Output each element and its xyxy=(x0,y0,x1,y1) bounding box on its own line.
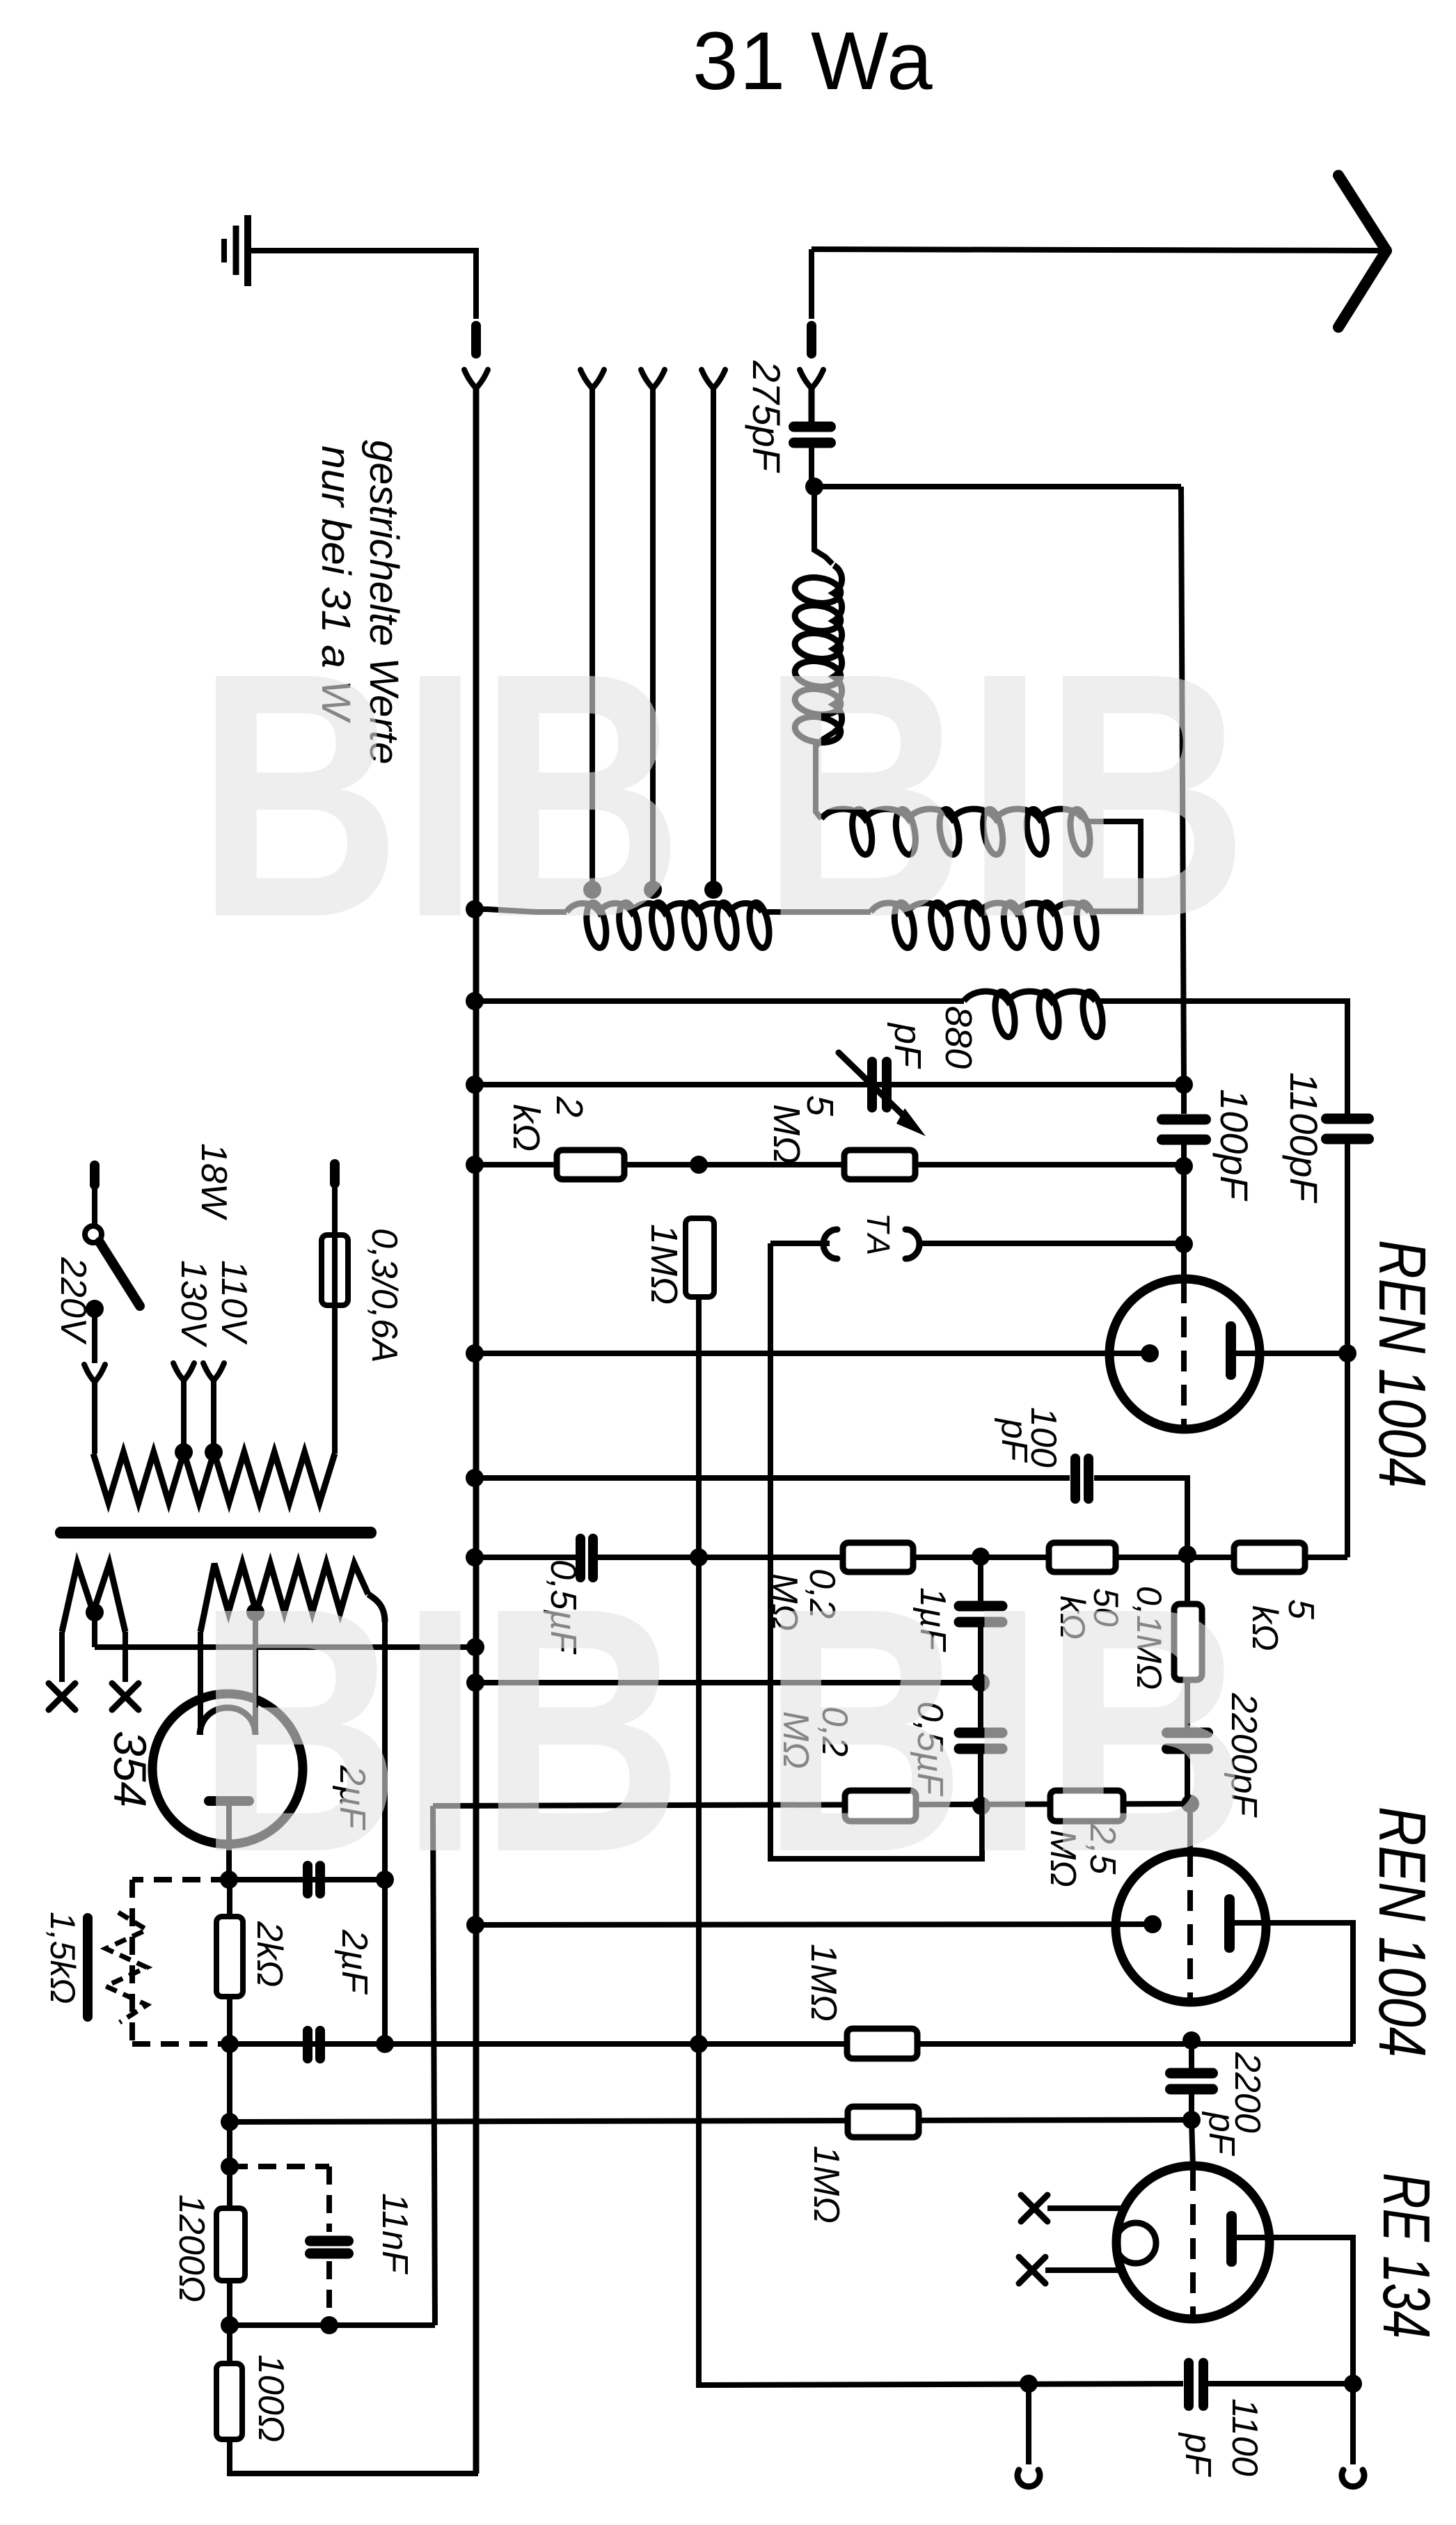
svg-text:354: 354 xyxy=(104,1731,156,1807)
svg-text:MΩ: MΩ xyxy=(766,1104,807,1164)
svg-text:110V: 110V xyxy=(214,1260,254,1345)
svg-text:pF: pF xyxy=(1201,2111,1242,2157)
svg-text:2kΩ: 2kΩ xyxy=(249,1921,290,1987)
svg-text:1200Ω: 1200Ω xyxy=(171,2194,212,2302)
svg-text:pF: pF xyxy=(1178,2432,1218,2478)
svg-text:pF: pF xyxy=(994,1417,1034,1463)
svg-text:2µF: 2µF xyxy=(334,1929,374,1995)
svg-text:31 Wa: 31 Wa xyxy=(693,15,934,107)
svg-text:REN 1004: REN 1004 xyxy=(1365,1807,1439,2057)
svg-text:275pF: 275pF xyxy=(745,360,789,473)
svg-text:100pF: 100pF xyxy=(1212,1089,1256,1202)
svg-text:kΩ: kΩ xyxy=(505,1104,547,1151)
svg-text:pF: pF xyxy=(887,1022,928,1069)
svg-text:880: 880 xyxy=(937,1006,979,1069)
svg-text:130V: 130V xyxy=(173,1260,214,1348)
svg-text:REN 1004: REN 1004 xyxy=(1365,1240,1439,1488)
svg-text:1MΩ: 1MΩ xyxy=(806,2146,846,2224)
svg-text:100Ω: 100Ω xyxy=(251,2354,291,2442)
svg-text:1,5kΩ: 1,5kΩ xyxy=(43,1912,82,2004)
svg-text:kΩ: kΩ xyxy=(1244,1605,1285,1651)
svg-text:1MΩ: 1MΩ xyxy=(803,1944,844,2022)
svg-text:18W: 18W xyxy=(193,1143,234,1221)
svg-text:220V: 220V xyxy=(53,1257,93,1345)
svg-text:1100pF: 1100pF xyxy=(1282,1072,1326,1204)
svg-text:BIB BIB: BIB BIB xyxy=(197,1535,1248,1924)
svg-text:TA: TA xyxy=(860,1213,896,1259)
svg-text:1100: 1100 xyxy=(1224,2398,1265,2476)
svg-text:0,3/0,6A: 0,3/0,6A xyxy=(364,1228,404,1363)
svg-text:RE 134: RE 134 xyxy=(1369,2173,1443,2338)
svg-text:11nF: 11nF xyxy=(374,2193,415,2275)
svg-text:5: 5 xyxy=(1281,1599,1321,1620)
svg-text:BIB BIB: BIB BIB xyxy=(197,600,1248,989)
svg-text:1MΩ: 1MΩ xyxy=(643,1224,685,1305)
svg-text:2: 2 xyxy=(548,1096,590,1117)
